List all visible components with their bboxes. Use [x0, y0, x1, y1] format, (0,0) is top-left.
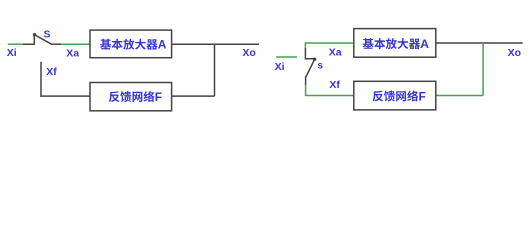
- wire junction vertical right diagram (green): [482, 43, 484, 96]
- switch S2 blade: [306, 59, 315, 77]
- feedback box F1 label 反馈网络: [109, 91, 155, 102]
- wire Xi input left diagram (green): [8, 43, 23, 45]
- svg-text:Xo: Xo: [242, 47, 255, 59]
- svg-text:F: F: [419, 89, 426, 103]
- feedback box F1: [90, 83, 172, 111]
- svg-text:Xa: Xa: [66, 48, 79, 60]
- wire amplifier A1 output to node Xo: [172, 43, 259, 45]
- wire node Xa top right diagram (green): [305, 43, 353, 48]
- switch S1 blade: [35, 35, 52, 44]
- svg-text:Xa: Xa: [329, 46, 342, 58]
- wire node Xa to amplifier A1 (green): [61, 43, 90, 45]
- svg-text:F: F: [155, 90, 162, 104]
- svg-text:A: A: [158, 38, 167, 52]
- wire switch S2 top lead: [305, 48, 315, 59]
- svg-text:S: S: [44, 30, 51, 41]
- wire junction vertical down to feedback F1: [214, 44, 216, 96]
- amplifier box A1: [90, 30, 172, 58]
- svg-text:s: s: [317, 60, 323, 71]
- amplifier box A2: [354, 29, 436, 58]
- switch S1 pivot dot: [33, 33, 36, 36]
- svg-text:Xi: Xi: [7, 47, 17, 59]
- switch S2 pivot dot: [313, 58, 316, 61]
- svg-text:A: A: [420, 37, 429, 51]
- wire switch S1 left lead: [23, 35, 34, 45]
- feedback box F2: [354, 81, 436, 110]
- wire switch S2 bottom lead: [305, 77, 307, 86]
- svg-text:Xf: Xf: [46, 66, 57, 78]
- wire node Xf open stub vertical: [40, 62, 42, 97]
- wire switch S1 right lead: [51, 43, 61, 45]
- wire node Xf bottom right diagram (green): [305, 85, 354, 96]
- feedback box F2 label 反馈网络: [373, 90, 419, 101]
- wire feedback F1 input: [172, 95, 215, 97]
- amplifier box A1 label 基本放大器: [100, 39, 158, 50]
- wire feedback F1 output toward node Xf: [40, 95, 90, 97]
- svg-text:Xo: Xo: [508, 47, 521, 59]
- svg-text:Xf: Xf: [329, 79, 340, 91]
- wire amplifier A2 output to node Xo: [436, 42, 523, 44]
- amplifier box A2 label 基本放大器: [363, 38, 421, 49]
- wire Xi input stub right diagram (green): [276, 56, 297, 58]
- wire feedback F2 input (green): [436, 95, 483, 97]
- svg-text:Xi: Xi: [275, 61, 285, 73]
